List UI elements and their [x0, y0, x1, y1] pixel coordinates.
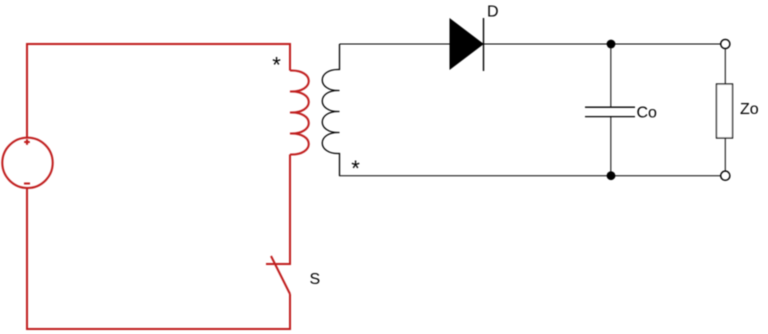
wire: diode to output terminal (top) — [484, 43, 721, 45]
transformer primary winding L1 — [290, 70, 309, 154]
capacitor Co — [585, 107, 635, 116]
wire: capacitor bottom lead — [610, 117, 612, 176]
wire: load Zo to bottom terminal — [724, 138, 726, 171]
wire: capacitor top lead — [610, 44, 612, 107]
wire: red vertical from primary to switch contact — [266, 155, 290, 265]
switch S blade — [271, 256, 290, 294]
load resistor Zo — [717, 84, 733, 138]
voltage source V1 — [2, 138, 52, 188]
wire: terminal to load Zo — [724, 49, 726, 84]
svg-text:*: * — [272, 53, 281, 78]
output terminal: top — [721, 39, 730, 48]
svg-text:Zo: Zo — [740, 101, 759, 118]
output terminal: bottom — [721, 171, 730, 180]
wire: bottom horizontal return — [339, 175, 721, 177]
wire: red run from V1 bottom, across bottom, up to switch — [27, 188, 290, 329]
svg-text:S: S — [310, 271, 321, 288]
svg-text:Co: Co — [637, 105, 658, 122]
svg-text:*: * — [351, 156, 360, 181]
svg-text:D: D — [487, 4, 499, 21]
transformer secondary winding L2 — [322, 44, 339, 176]
wire: red run from V1 top, across top, down to primary — [27, 44, 290, 138]
diode D — [450, 18, 484, 71]
wire: secondary top to diode — [340, 43, 451, 45]
node junction: top — [607, 40, 616, 49]
node junction: bottom — [607, 171, 616, 180]
